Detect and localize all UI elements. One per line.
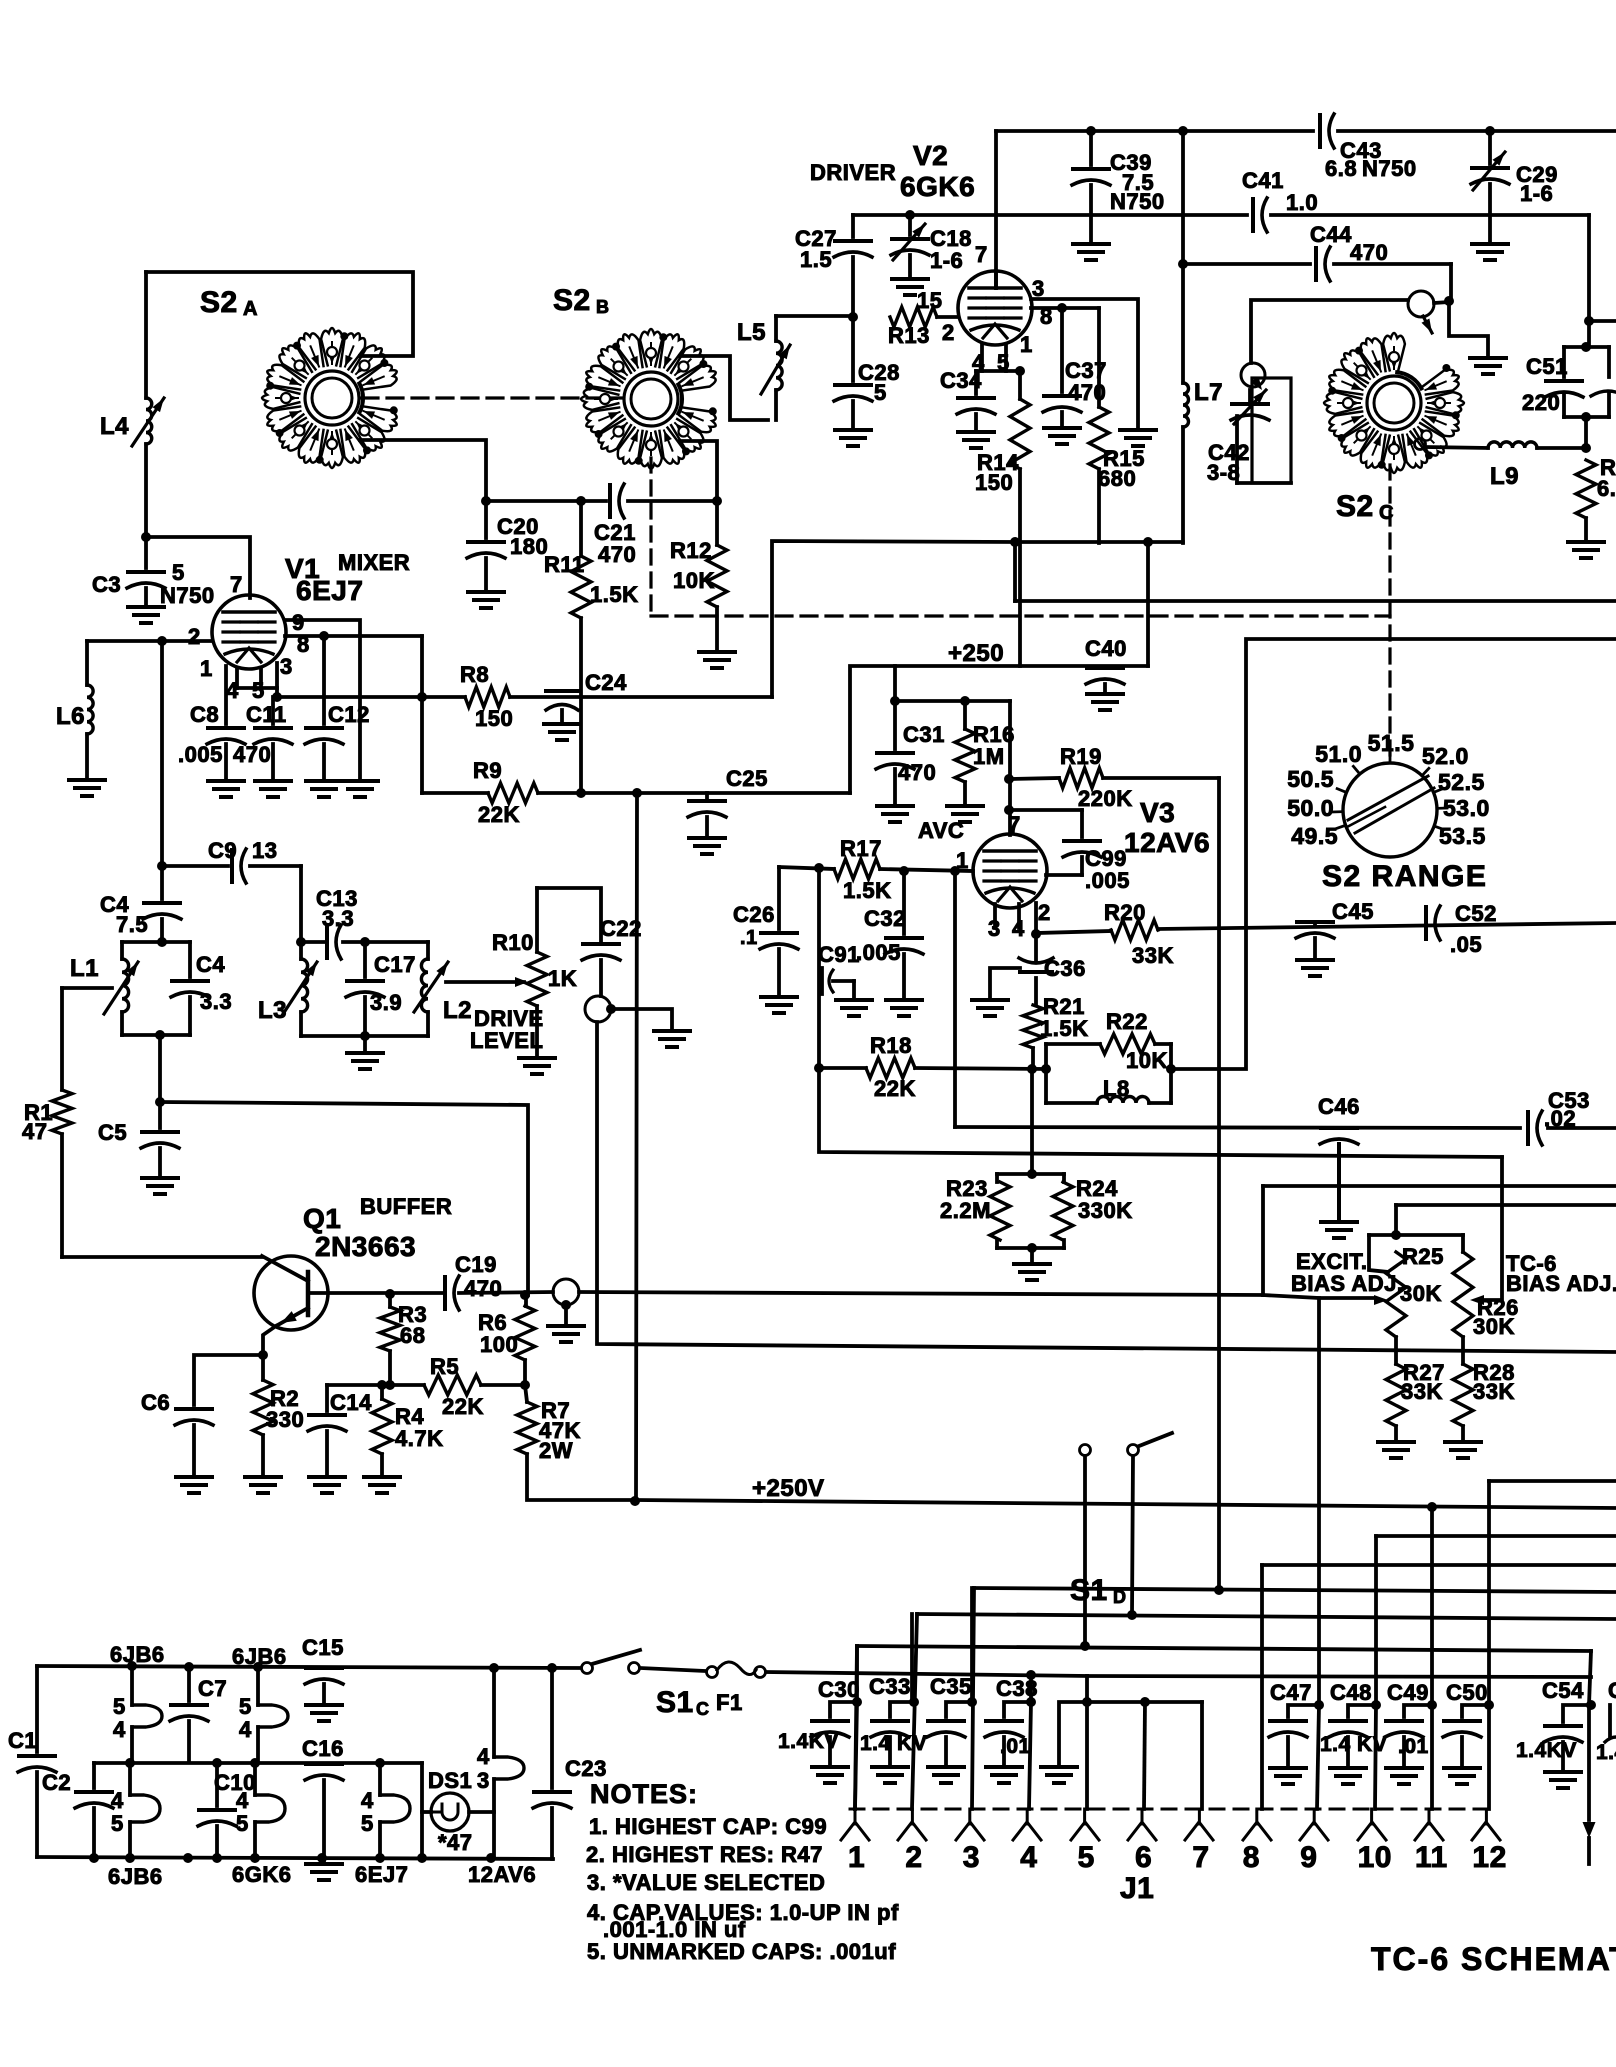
svg-text:N750: N750 [1362, 156, 1417, 181]
bus +HV top [996, 129, 1313, 133]
capacitor C5 [158, 1102, 162, 1128]
capacitor C8 [208, 726, 244, 730]
wire collector to C19 [390, 1291, 445, 1295]
svg-text:4: 4 [361, 1788, 374, 1813]
svg-text:3.9: 3.9 [370, 990, 402, 1015]
heater bus 3 [37, 1857, 553, 1859]
resistor R21 [1023, 1005, 1043, 1048]
svg-text:12: 12 [1472, 1841, 1506, 1874]
svg-text:AVC: AVC [918, 818, 964, 843]
ground C12 [306, 779, 342, 783]
tube V1 6EJ7 [212, 595, 286, 669]
svg-text:5: 5 [361, 1811, 374, 1836]
svg-text:C7: C7 [198, 1676, 227, 1701]
wire to V1 pin7 [146, 537, 250, 598]
svg-text:51.5: 51.5 [1368, 730, 1415, 756]
heater bracket 6JB6 a [132, 1705, 162, 1727]
svg-text:9: 9 [1300, 1841, 1317, 1874]
svg-text:1-6: 1-6 [1520, 181, 1553, 206]
capacitor C2 [92, 1763, 96, 1788]
ground C91 [836, 998, 872, 1002]
heater bracket 6EJ7 [380, 1795, 410, 1822]
wire C44 down to tp node [1449, 264, 1453, 301]
bus C46 C53 y1128 [955, 1127, 1520, 1128]
wire V2 pin3 to shield gnd [1031, 299, 1138, 430]
wire x637 down [636, 793, 637, 1501]
svg-text:C34: C34 [940, 368, 982, 393]
svg-text:4: 4 [236, 1788, 249, 1813]
svg-text:33K: 33K [1132, 943, 1174, 968]
wire AVC down x819 [817, 868, 821, 1068]
svg-text:BUFFER: BUFFER [360, 1194, 452, 1219]
wire R8 bus up east [772, 541, 1015, 697]
svg-text:1.4: 1.4 [1596, 1741, 1616, 1764]
svg-text:.01: .01 [1000, 1735, 1031, 1758]
svg-text:1.5K: 1.5K [1040, 1016, 1088, 1041]
svg-text:C54: C54 [1542, 1678, 1584, 1703]
svg-text:220K: 220K [1078, 786, 1133, 811]
wire R25 wiper feed [1263, 1295, 1375, 1298]
svg-text:C30: C30 [818, 1677, 860, 1702]
svg-text:3.3: 3.3 [200, 989, 232, 1014]
capacitor C44 [1314, 248, 1318, 280]
wire grid column x162 [160, 641, 164, 866]
capacitor C53 [1526, 1112, 1530, 1144]
resistor R28 [1461, 1337, 1465, 1364]
svg-text:53.5: 53.5 [1439, 823, 1486, 849]
capacitor C52 [1424, 907, 1428, 939]
svg-text:C44: C44 [1310, 222, 1352, 247]
svg-text:BIAS ADJ.: BIAS ADJ. [1506, 1271, 1616, 1296]
svg-text:5: 5 [113, 1694, 126, 1719]
svg-text:C33: C33 [869, 1674, 911, 1699]
svg-text:LEVEL: LEVEL [470, 1028, 543, 1053]
svg-text:4: 4 [477, 1744, 490, 1769]
wire x1319 down to J1-9 [1317, 1298, 1321, 1705]
capacitor C28 [851, 317, 855, 381]
svg-text:C26: C26 [733, 902, 775, 927]
inductor L2 [426, 942, 430, 959]
svg-text:BIAS ADJ.: BIAS ADJ. [1291, 1271, 1403, 1296]
svg-text:4: 4 [1020, 1841, 1037, 1874]
svg-text:15: 15 [917, 288, 942, 313]
svg-text:C9: C9 [208, 838, 237, 863]
svg-text:.005: .005 [856, 940, 901, 965]
wire R10 top to C22 [537, 888, 601, 942]
svg-text:1.4KV: 1.4KV [1516, 1739, 1577, 1762]
ground R23 R24 [1030, 1248, 1034, 1264]
ground C34 [958, 430, 994, 434]
svg-text:6JB6: 6JB6 [110, 1642, 165, 1667]
svg-text:7: 7 [1192, 1841, 1209, 1874]
svg-text:1: 1 [956, 848, 969, 873]
inductor L6 [85, 641, 89, 685]
dashed S2B down and east [649, 458, 652, 613]
svg-text:TC-6 SCHEMATIC: TC-6 SCHEMATIC [1371, 1941, 1616, 1977]
svg-text:6.8: 6.8 [1597, 476, 1616, 501]
svg-text:C23: C23 [565, 1756, 607, 1781]
ground pin9 [342, 779, 378, 783]
wire x955 down to C53 bus [953, 871, 957, 1127]
resistor R3 [388, 1294, 392, 1307]
svg-text:C35: C35 [930, 1674, 972, 1699]
svg-text:C24: C24 [585, 670, 627, 695]
J1 feed columns from caps [855, 1646, 859, 1702]
capacitor C35 [946, 1702, 972, 1717]
svg-text:F1: F1 [716, 1690, 743, 1715]
svg-text:*47: *47 [438, 1830, 473, 1855]
svg-text:C10: C10 [214, 1770, 256, 1795]
pin 11 [1428, 1809, 1431, 1824]
svg-text:V2: V2 [913, 140, 948, 171]
svg-text:R22: R22 [1106, 1009, 1148, 1034]
capacitor C6 [194, 1355, 263, 1405]
ground pin3 [1120, 428, 1156, 432]
svg-text:2. HIGHEST RES: R47: 2. HIGHEST RES: R47 [586, 1842, 823, 1867]
svg-text:49.5: 49.5 [1291, 823, 1338, 849]
wire +250 feed x1148 [1146, 542, 1150, 666]
svg-text:C50: C50 [1446, 1680, 1488, 1705]
heater bracket 6JB6 c [130, 1795, 160, 1822]
svg-text:47: 47 [22, 1119, 47, 1144]
svg-text:1. HIGHEST CAP: C99: 1. HIGHEST CAP: C99 [589, 1814, 827, 1839]
svg-text:C48: C48 [1330, 1680, 1372, 1705]
svg-text:10K: 10K [673, 568, 715, 593]
lamp DS1 [431, 1793, 469, 1831]
svg-text:2: 2 [1038, 900, 1051, 925]
svg-text:4: 4 [113, 1717, 126, 1742]
wire R22 east up to C46 bus [1171, 639, 1616, 1069]
capacitor C25 [705, 793, 709, 799]
svg-text:L8: L8 [1103, 1076, 1130, 1101]
svg-text:6GK6: 6GK6 [232, 1862, 291, 1887]
capacitor C43 [1318, 115, 1322, 147]
capacitor C48 [1371, 1700, 1381, 1710]
ground C24 [544, 722, 580, 726]
svg-text:180: 180 [510, 534, 548, 559]
ground spare [1085, 1676, 1089, 1702]
svg-text:470: 470 [464, 1276, 502, 1301]
ground C18 [892, 277, 928, 281]
svg-text:470: 470 [598, 542, 636, 567]
inductor L3 [299, 942, 303, 959]
svg-text:L6: L6 [56, 703, 85, 730]
capacitor C7 [187, 1667, 191, 1701]
wire tp to ground [1449, 301, 1488, 358]
capacitor C50 [1484, 1700, 1494, 1710]
svg-text:1: 1 [1020, 332, 1033, 357]
svg-text:12AV6: 12AV6 [1124, 827, 1210, 858]
svg-text:51.0: 51.0 [1315, 741, 1362, 767]
svg-text:C: C [696, 1699, 710, 1719]
svg-text:52.5: 52.5 [1438, 769, 1485, 795]
pin 6 [1141, 1809, 1144, 1824]
svg-text:1.5: 1.5 [800, 247, 832, 272]
svg-text:C2: C2 [42, 1770, 71, 1795]
wire L2 wiper to R10 [446, 980, 524, 984]
svg-text:52.0: 52.0 [1422, 743, 1469, 769]
svg-text:1.5K: 1.5K [590, 582, 638, 607]
svg-text:R9: R9 [473, 758, 502, 783]
svg-text:V3: V3 [1140, 797, 1175, 828]
capacitor C13 [325, 926, 329, 958]
svg-text:R11: R11 [544, 552, 585, 577]
ground R29 [1568, 540, 1604, 544]
svg-text:R13: R13 [888, 323, 930, 348]
node bus C20-R11-C21-R12 [486, 499, 606, 503]
capacitor C24 [546, 689, 578, 693]
svg-text:J1: J1 [1120, 1872, 1154, 1905]
resistor R11 [579, 501, 583, 556]
ground C20 [468, 590, 504, 594]
svg-text:R18: R18 [870, 1033, 912, 1058]
transistor Q1 2N3663 [254, 1256, 328, 1330]
svg-text:+250: +250 [948, 640, 1004, 667]
svg-text:L2: L2 [443, 997, 472, 1024]
resistor R12 [715, 501, 719, 545]
wire L4 branch [144, 272, 148, 398]
wire feedback to R6 [160, 1102, 528, 1295]
inductor L9 [1488, 442, 1537, 448]
capacitor C21 [608, 485, 612, 517]
resistor R16 [963, 701, 967, 729]
tube V3 12AV6 [973, 834, 1047, 908]
wire C54 column to J1 arrow [1587, 1705, 1591, 1820]
capacitor C37 [1060, 308, 1064, 392]
svg-text:.1: .1 [740, 927, 758, 949]
heater bus top [37, 1666, 580, 1668]
svg-text:53.0: 53.0 [1443, 795, 1490, 821]
svg-text:B: B [596, 297, 610, 317]
svg-text:C31: C31 [903, 722, 945, 747]
capacitor C40 [1087, 666, 1123, 670]
pin 4 [1026, 1809, 1029, 1824]
svg-text:1.0: 1.0 [1286, 190, 1318, 215]
capacitor C51 box [1564, 345, 1609, 349]
wire +250V to J1-11 [1430, 1507, 1434, 1705]
svg-text:50.5: 50.5 [1287, 766, 1334, 792]
ground L6 [69, 778, 105, 782]
wire y1702 to J1 6 7 [1087, 1700, 1202, 1704]
svg-text:6JB6: 6JB6 [232, 1644, 287, 1669]
ground C25 [689, 836, 725, 840]
svg-text:2: 2 [942, 320, 955, 345]
ground C29 [1472, 242, 1508, 246]
wire S2A top loop [146, 272, 413, 356]
svg-text:C11: C11 [246, 702, 287, 727]
svg-text:N750: N750 [160, 583, 215, 608]
wire S2B petal to R12 node [680, 441, 717, 501]
ground heater bus [322, 1857, 326, 1862]
svg-text:22K: 22K [478, 802, 520, 827]
R22 L8 parallel [1044, 1044, 1048, 1103]
svg-text:7: 7 [975, 242, 988, 267]
resistor R20 [1036, 931, 1111, 933]
svg-text:5: 5 [1078, 1841, 1095, 1874]
ground C32 [886, 998, 922, 1002]
ground R10 [519, 1056, 555, 1060]
rotary switch S2B [624, 372, 678, 426]
dashed rotor line S2A-S2B [362, 396, 622, 399]
svg-text:3: 3 [963, 1841, 980, 1874]
resistor R17 [834, 859, 880, 879]
svg-text:C52: C52 [1455, 901, 1497, 926]
shield box C42 [1252, 378, 1291, 483]
ground C39 [1073, 242, 1109, 246]
capacitor C16 [306, 1762, 342, 1766]
capacitor C38 [1004, 1702, 1031, 1717]
wire plate bus y601 [1015, 542, 1616, 601]
svg-text:C25: C25 [726, 766, 768, 791]
inductor L7 [1181, 131, 1185, 383]
resistor R14 [1018, 371, 1022, 399]
svg-text:L7: L7 [1194, 379, 1223, 406]
svg-text:470: 470 [233, 742, 271, 767]
fan-out stair lines [1489, 1479, 1616, 1483]
svg-text:.05: .05 [1450, 932, 1482, 957]
svg-text:R10: R10 [492, 930, 534, 955]
bus screen y215 [853, 213, 1247, 217]
wire R1 to base [62, 1255, 262, 1259]
tank bottom tie [122, 1033, 190, 1037]
ground tank2 [363, 1036, 367, 1053]
switch S1c [582, 1663, 593, 1674]
dashed S2C down to dial [1388, 465, 1391, 760]
svg-text:5: 5 [874, 380, 887, 405]
rotary switch S2C [1367, 376, 1421, 430]
variable capacitor C29 [1488, 131, 1492, 164]
svg-text:7.5: 7.5 [116, 912, 148, 937]
wire C9 row [162, 864, 228, 868]
resistor R18 [819, 1066, 866, 1070]
wire bias feed y1205 [1396, 1203, 1616, 1207]
resistor R6 [524, 1294, 528, 1306]
switch S1d [1080, 1445, 1091, 1456]
svg-text:33K: 33K [1473, 1379, 1515, 1404]
V1 pin stubs and cathode node [224, 666, 228, 724]
capacitor C47 [1314, 1700, 1324, 1710]
capacitor C10 [215, 1763, 219, 1806]
ground C31 [877, 804, 913, 808]
ground C37 [1044, 426, 1080, 430]
capacitor C26 [777, 867, 781, 929]
svg-text:30K: 30K [1400, 1281, 1442, 1306]
svg-text:R25: R25 [1402, 1244, 1444, 1269]
capacitor C3 [128, 570, 164, 574]
wire to R15/L7 bottoms [1015, 540, 1183, 544]
svg-text:C: C [1379, 502, 1394, 524]
svg-text:R19: R19 [1060, 744, 1102, 769]
resistor R27 [1394, 1337, 1398, 1364]
svg-text:C47: C47 [1270, 1680, 1312, 1705]
wire R1 top [62, 986, 112, 990]
capacitor C30 [830, 1702, 857, 1717]
wire jack to ground [611, 1009, 672, 1031]
pin 2 [911, 1809, 914, 1824]
V2 pins 4,5 stubs [980, 345, 984, 371]
svg-text:2.2M: 2.2M [940, 1198, 991, 1223]
svg-text:220: 220 [1522, 390, 1560, 415]
wire x422 down [420, 636, 424, 793]
svg-text:C32: C32 [864, 906, 906, 931]
wire R21 to R23 R24 [1030, 1069, 1034, 1174]
svg-text:10: 10 [1358, 1841, 1392, 1874]
svg-text:C17: C17 [374, 952, 416, 977]
svg-text:L4: L4 [100, 413, 129, 440]
capacitor C14 [325, 1385, 329, 1411]
svg-text:S1: S1 [656, 1686, 694, 1719]
ground C40 [1087, 692, 1123, 696]
svg-text:1.4 KV: 1.4 KV [860, 1732, 927, 1755]
svg-text:6EJ7: 6EJ7 [296, 575, 363, 606]
S2C petal circle to L9 [1415, 439, 1426, 450]
potentiometer R10 [527, 952, 547, 1006]
resistor R7 [525, 1385, 527, 1402]
svg-text:5: 5 [111, 1811, 124, 1836]
svg-text:4: 4 [239, 1717, 252, 1742]
capacitor C45 [1313, 923, 1317, 924]
wire R26 wiper feed [1478, 1157, 1502, 1300]
resistor R19 [1009, 778, 1059, 779]
capacitor C9 [230, 850, 234, 882]
svg-text:22K: 22K [874, 1076, 916, 1101]
svg-text:1: 1 [848, 1841, 865, 1874]
svg-text:50.0: 50.0 [1287, 795, 1334, 821]
ground C3 [128, 605, 164, 609]
resistor R13 [890, 307, 937, 327]
bus C44 y264 [1183, 262, 1310, 266]
R23 R24 parallel pair [997, 1172, 1064, 1176]
wire Q1 collector line east [579, 1292, 1263, 1295]
svg-text:C12: C12 [328, 702, 370, 727]
svg-text:680: 680 [1098, 466, 1136, 491]
potentiometer R25 [1386, 1252, 1406, 1337]
inductor L4 [146, 398, 152, 444]
svg-text:470: 470 [1350, 240, 1388, 265]
wire pin9 to ground [285, 620, 360, 781]
svg-text:13: 13 [252, 838, 277, 863]
svg-text:11: 11 [1415, 1841, 1448, 1874]
heater bus 2 [94, 1761, 422, 1765]
capacitor C17 [363, 942, 367, 977]
svg-text:C14: C14 [330, 1390, 372, 1415]
svg-text:C19: C19 [455, 1252, 497, 1277]
svg-text:DS1: DS1 [428, 1768, 472, 1793]
svg-text:10K: 10K [1126, 1048, 1168, 1073]
ground C8 [208, 779, 244, 783]
svg-text:3. *VALUE SELECTED: 3. *VALUE SELECTED [587, 1870, 825, 1895]
tank L1 C4 top tie [122, 940, 190, 944]
svg-text:6EJ7: 6EJ7 [355, 1862, 408, 1887]
svg-text:2W: 2W [539, 1438, 573, 1463]
wire C5 node [158, 1035, 162, 1102]
ground R12 [699, 650, 735, 654]
svg-text:C3: C3 [92, 572, 121, 597]
pin 12 [1485, 1809, 1488, 1824]
svg-text:C: C [1608, 1678, 1616, 1703]
wire V3 grid column [1008, 701, 1012, 835]
capacitor C41 [1251, 199, 1255, 231]
ground tp [1470, 356, 1506, 360]
svg-text:330K: 330K [1078, 1198, 1133, 1223]
capacitor C19 [443, 1277, 447, 1309]
svg-text:C41: C41 [1242, 168, 1284, 193]
svg-text:5. UNMARKED CAPS: .001uf: 5. UNMARKED CAPS: .001uf [587, 1939, 896, 1964]
capacitor C31 [893, 701, 897, 749]
resistor R29 [1576, 460, 1596, 518]
pin 10 [1370, 1809, 1373, 1824]
variable capacitor C18 [908, 215, 912, 235]
